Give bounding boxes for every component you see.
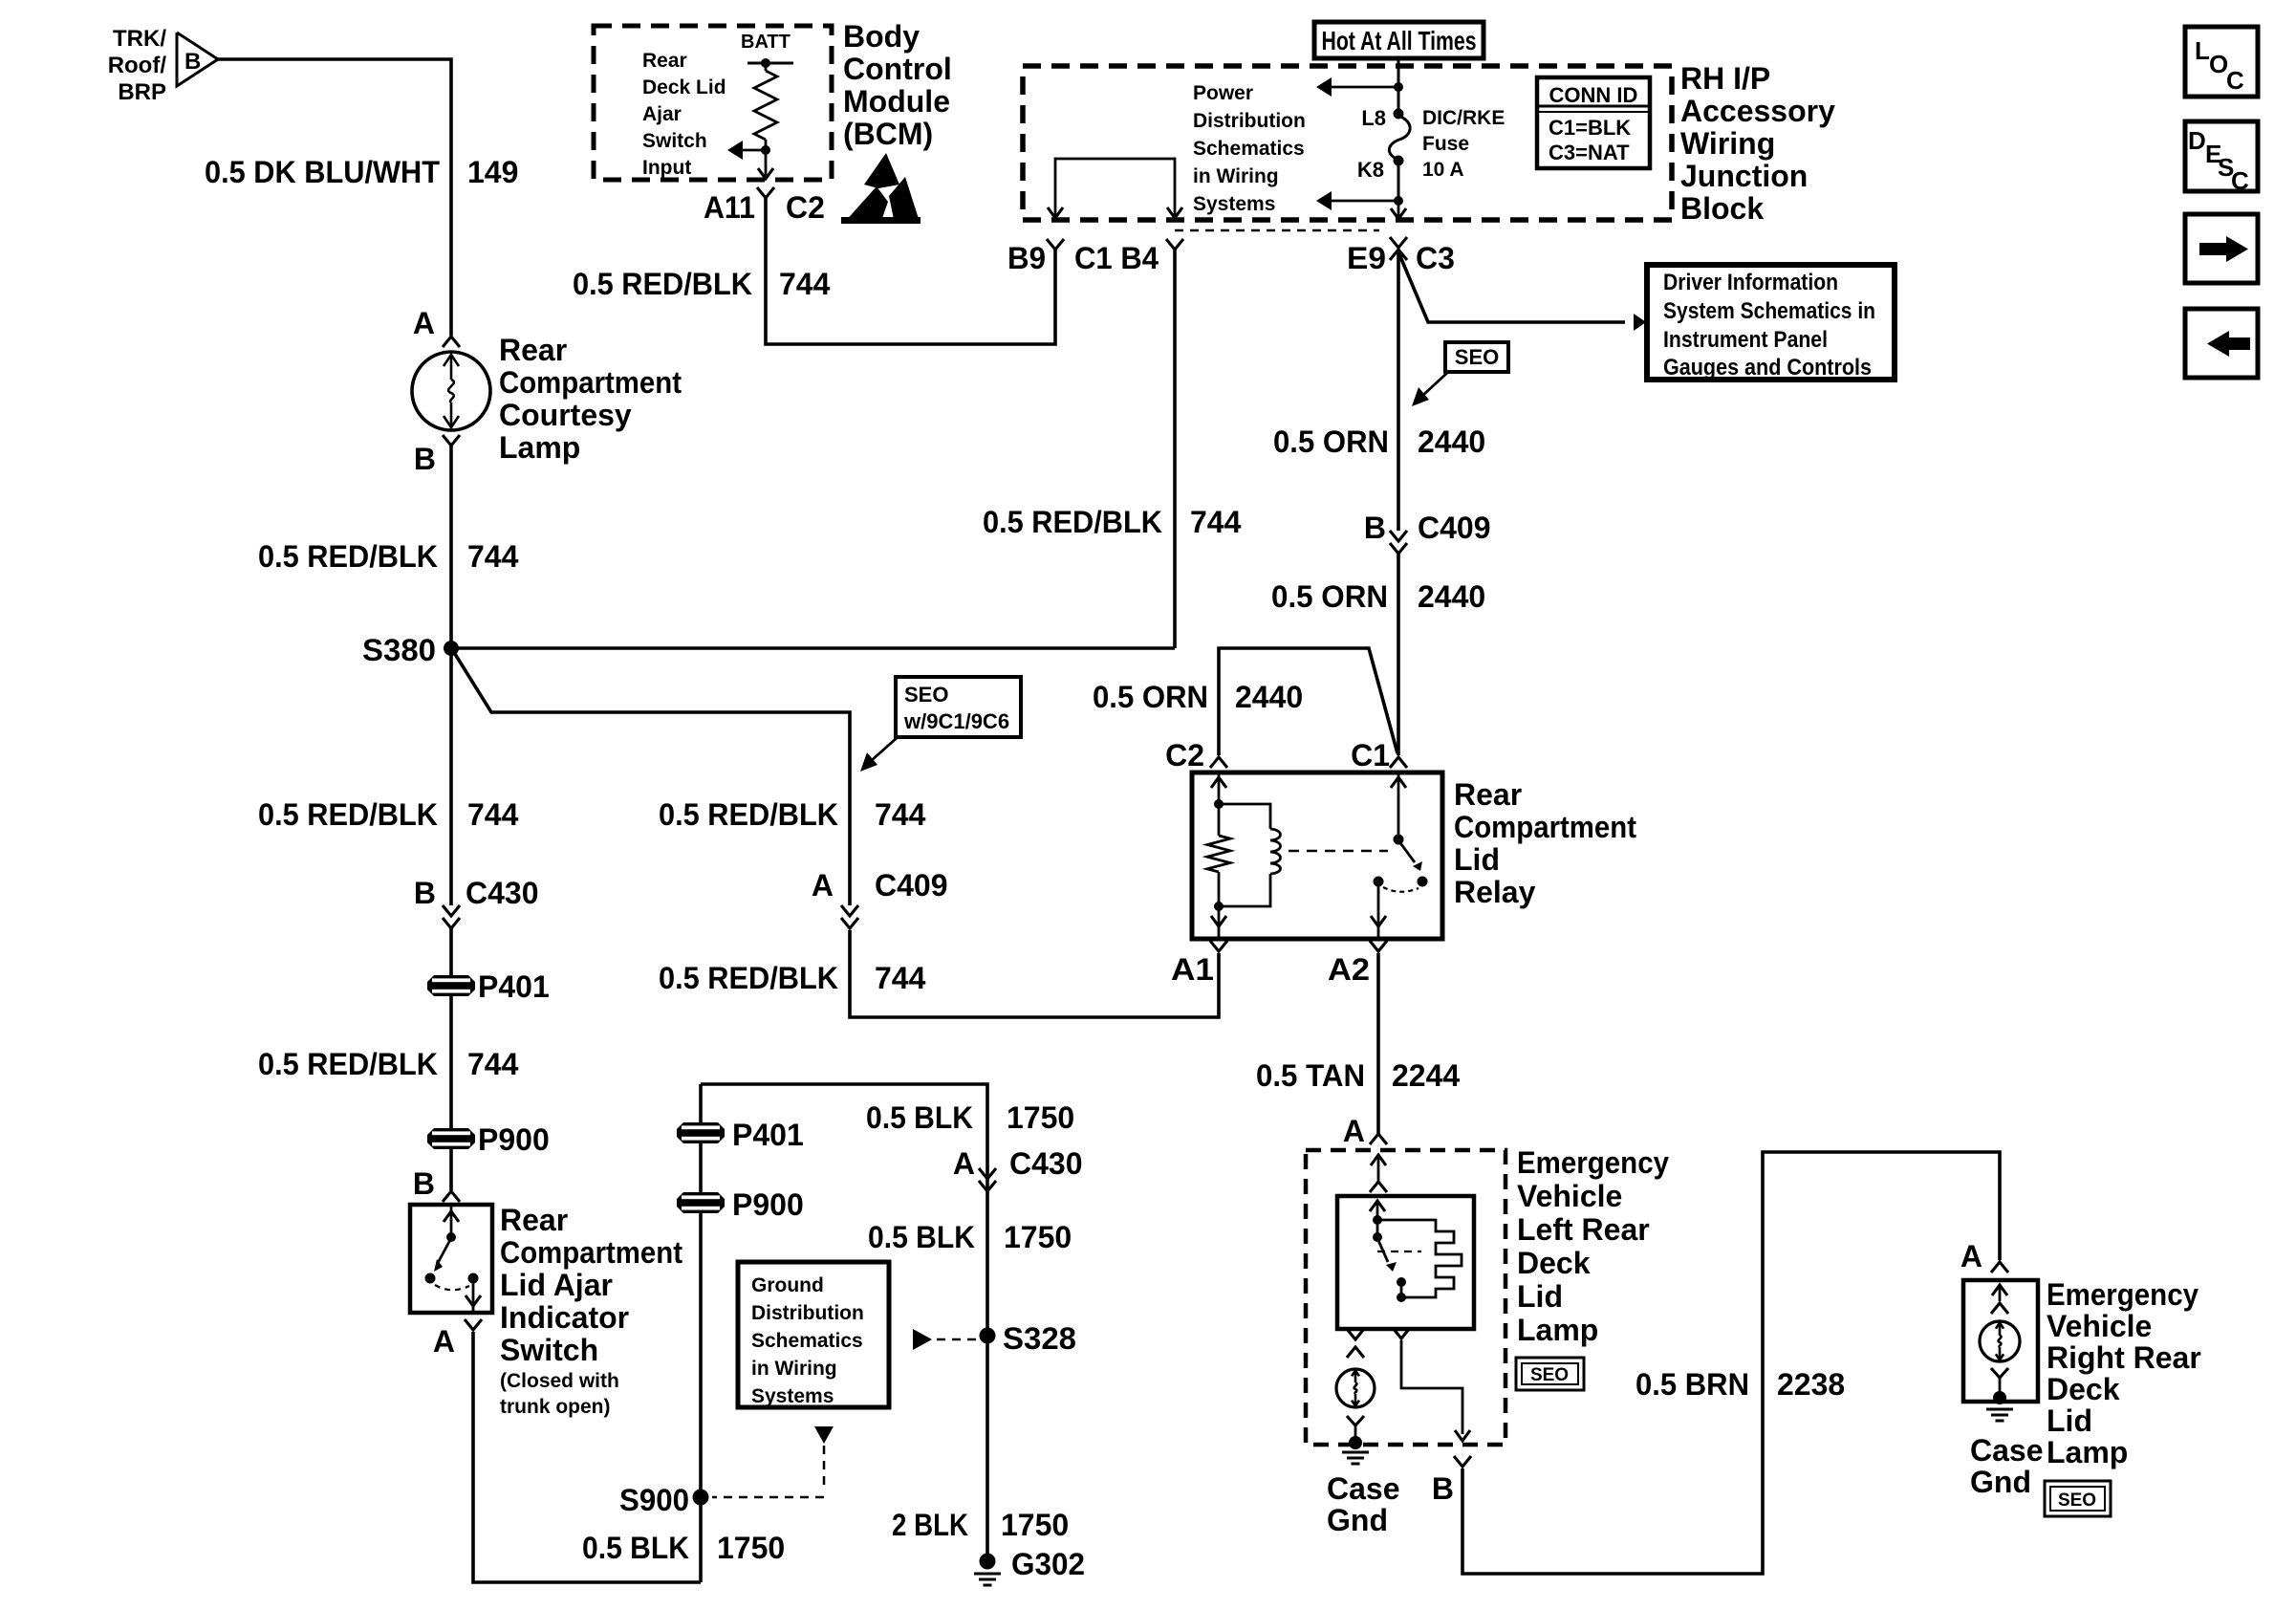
svg-text:RH I/P: RH I/P	[1680, 61, 1770, 96]
svg-text:A: A	[812, 868, 834, 903]
svg-text:A1: A1	[1171, 952, 1214, 987]
svg-text:Systems: Systems	[751, 1385, 834, 1407]
svg-text:744: 744	[1190, 505, 1242, 539]
svg-text:Driver Information: Driver Information	[1663, 270, 1838, 295]
svg-text:Vehicle: Vehicle	[1517, 1179, 1622, 1213]
svg-text:A: A	[1960, 1239, 1982, 1273]
svg-text:A2: A2	[1328, 952, 1370, 987]
svg-text:Distribution: Distribution	[751, 1302, 864, 1324]
svg-text:0.5 RED/BLK: 0.5 RED/BLK	[258, 1047, 438, 1081]
svg-text:Deck: Deck	[2047, 1372, 2120, 1406]
svg-text:B: B	[184, 49, 201, 75]
svg-text:C430: C430	[1009, 1146, 1083, 1181]
svg-text:Distribution: Distribution	[1193, 110, 1306, 132]
svg-text:Rear: Rear	[500, 1203, 568, 1237]
svg-text:B: B	[1432, 1471, 1454, 1506]
svg-text:Gnd: Gnd	[1327, 1503, 1388, 1537]
svg-text:C1 B4: C1 B4	[1074, 241, 1159, 275]
svg-text:E9: E9	[1347, 241, 1386, 275]
svg-text:Ajar: Ajar	[642, 103, 682, 125]
svg-text:Compartment: Compartment	[499, 365, 682, 400]
svg-text:C3: C3	[1416, 241, 1455, 275]
svg-text:Rear: Rear	[1454, 777, 1522, 812]
svg-text:1750: 1750	[717, 1531, 785, 1565]
svg-text:P900: P900	[732, 1187, 804, 1222]
svg-text:Lamp: Lamp	[499, 430, 580, 465]
svg-text:0.5 BLK: 0.5 BLK	[868, 1220, 975, 1254]
svg-text:1750: 1750	[1001, 1508, 1069, 1542]
svg-text:BATT: BATT	[741, 32, 791, 53]
svg-text:K8: K8	[1357, 158, 1384, 182]
svg-text:Rear: Rear	[499, 333, 567, 367]
svg-text:Hot At All Times: Hot At All Times	[1322, 26, 1477, 55]
svg-text:Ground: Ground	[751, 1274, 824, 1296]
svg-text:C2: C2	[1165, 738, 1204, 772]
svg-text:D: D	[2188, 126, 2206, 155]
svg-text:0.5 RED/BLK: 0.5 RED/BLK	[573, 267, 752, 301]
svg-text:Switch: Switch	[642, 130, 707, 152]
svg-text:2440: 2440	[1235, 680, 1303, 714]
svg-text:B: B	[413, 1166, 435, 1201]
svg-text:Compartment: Compartment	[1454, 810, 1636, 844]
svg-text:C409: C409	[875, 868, 948, 903]
svg-text:Control: Control	[843, 52, 952, 86]
svg-text:B: B	[414, 876, 436, 910]
svg-text:in Wiring: in Wiring	[751, 1358, 837, 1380]
svg-text:Lid: Lid	[2047, 1403, 2092, 1438]
svg-text:0.5 ORN: 0.5 ORN	[1273, 424, 1389, 459]
svg-text:2440: 2440	[1418, 424, 1485, 459]
svg-text:Lid: Lid	[1517, 1279, 1563, 1314]
svg-text:Emergency: Emergency	[2047, 1277, 2199, 1312]
svg-text:S328: S328	[1003, 1321, 1076, 1356]
svg-text:Instrument Panel: Instrument Panel	[1663, 327, 1828, 353]
svg-text:P900: P900	[478, 1122, 550, 1157]
svg-text:0.5 RED/BLK: 0.5 RED/BLK	[258, 797, 438, 832]
svg-text:0.5 RED/BLK: 0.5 RED/BLK	[983, 505, 1162, 539]
svg-text:Module: Module	[843, 84, 950, 119]
svg-text:P401: P401	[478, 969, 550, 1004]
svg-text:in Wiring: in Wiring	[1193, 165, 1279, 187]
svg-text:(BCM): (BCM)	[843, 117, 933, 151]
svg-text:Body: Body	[843, 19, 920, 54]
svg-text:Lid: Lid	[1454, 842, 1500, 877]
svg-text:C: C	[2226, 66, 2244, 95]
svg-text:Right Rear: Right Rear	[2047, 1340, 2201, 1375]
svg-text:Compartment: Compartment	[500, 1235, 682, 1270]
svg-text:B: B	[1364, 511, 1386, 545]
svg-text:Junction: Junction	[1680, 159, 1808, 193]
svg-text:Deck: Deck	[1517, 1246, 1591, 1280]
svg-text:Vehicle: Vehicle	[2047, 1309, 2152, 1343]
svg-text:0.5 RED/BLK: 0.5 RED/BLK	[659, 961, 838, 995]
svg-text:A: A	[433, 1324, 455, 1359]
svg-text:System Schematics in: System Schematics in	[1663, 298, 1875, 324]
svg-text:Block: Block	[1680, 191, 1764, 226]
svg-text:P401: P401	[732, 1118, 804, 1152]
svg-text:BRP: BRP	[118, 79, 166, 105]
svg-text:w/9C1/9C6: w/9C1/9C6	[903, 709, 1009, 733]
svg-text:S380: S380	[362, 633, 436, 667]
svg-text:A: A	[1343, 1114, 1365, 1148]
svg-text:744: 744	[875, 961, 926, 995]
svg-text:0.5 DK BLU/WHT: 0.5 DK BLU/WHT	[205, 155, 440, 189]
svg-text:A11: A11	[704, 190, 755, 225]
svg-text:G302: G302	[1011, 1547, 1085, 1581]
svg-text:744: 744	[467, 1047, 519, 1081]
svg-text:C1=BLK: C1=BLK	[1549, 116, 1631, 140]
svg-text:CONN ID: CONN ID	[1549, 83, 1638, 107]
svg-text:10 A: 10 A	[1422, 159, 1464, 181]
svg-text:Fuse: Fuse	[1422, 133, 1469, 155]
svg-text:0.5 RED/BLK: 0.5 RED/BLK	[258, 539, 438, 574]
svg-text:Schematics: Schematics	[1193, 138, 1305, 160]
svg-text:C1: C1	[1351, 738, 1390, 772]
svg-text:Schematics: Schematics	[751, 1330, 863, 1352]
svg-text:1750: 1750	[1007, 1100, 1074, 1135]
svg-text:0.5 ORN: 0.5 ORN	[1271, 579, 1388, 614]
svg-text:Wiring: Wiring	[1680, 126, 1775, 161]
svg-text:SEO: SEO	[904, 683, 948, 707]
svg-text:744: 744	[467, 539, 519, 574]
svg-text:C3=NAT: C3=NAT	[1549, 141, 1630, 164]
svg-text:Courtesy: Courtesy	[499, 398, 632, 432]
svg-text:2 BLK: 2 BLK	[892, 1508, 968, 1542]
svg-text:trunk open): trunk open)	[500, 1396, 611, 1418]
svg-text:Power: Power	[1193, 82, 1253, 104]
svg-text:744: 744	[779, 267, 831, 301]
svg-text:DIC/RKE: DIC/RKE	[1422, 107, 1505, 129]
svg-text:744: 744	[467, 797, 519, 832]
svg-text:A: A	[953, 1146, 975, 1181]
svg-text:Lamp: Lamp	[1517, 1313, 1598, 1347]
svg-text:744: 744	[875, 797, 926, 832]
svg-text:0.5 BLK: 0.5 BLK	[866, 1100, 973, 1135]
svg-text:0.5 TAN: 0.5 TAN	[1256, 1058, 1365, 1093]
svg-text:Gnd: Gnd	[1970, 1465, 2031, 1499]
svg-text:B9: B9	[1007, 241, 1046, 275]
svg-text:C409: C409	[1418, 511, 1491, 545]
svg-text:Relay: Relay	[1454, 875, 1536, 909]
svg-text:(Closed with: (Closed with	[500, 1370, 619, 1392]
svg-text:Lamp: Lamp	[2047, 1435, 2128, 1469]
svg-text:0.5 BRN: 0.5 BRN	[1635, 1367, 1749, 1402]
svg-text:Case: Case	[1327, 1471, 1400, 1506]
svg-text:Deck Lid: Deck Lid	[642, 76, 726, 98]
svg-text:2440: 2440	[1418, 579, 1485, 614]
svg-text:TRK/: TRK/	[113, 26, 166, 52]
svg-text:Indicator: Indicator	[500, 1300, 629, 1335]
svg-text:Gauges and Controls: Gauges and Controls	[1663, 355, 1872, 381]
svg-text:S900: S900	[619, 1483, 689, 1517]
svg-text:Left Rear: Left Rear	[1517, 1212, 1650, 1247]
svg-text:L8: L8	[1361, 106, 1386, 130]
svg-text:Roof/: Roof/	[108, 53, 167, 78]
svg-text:L: L	[2195, 36, 2210, 65]
svg-text:2244: 2244	[1392, 1058, 1460, 1093]
svg-text:C430: C430	[466, 876, 539, 910]
svg-text:Systems: Systems	[1193, 193, 1275, 215]
svg-text:0.5 RED/BLK: 0.5 RED/BLK	[659, 797, 838, 832]
svg-text:B: B	[414, 442, 436, 476]
svg-text:C2: C2	[786, 190, 825, 225]
svg-text:Accessory: Accessory	[1680, 94, 1835, 128]
svg-text:1750: 1750	[1004, 1220, 1072, 1254]
svg-text:Switch: Switch	[500, 1333, 598, 1367]
svg-text:C: C	[2231, 166, 2249, 195]
svg-text:SEO: SEO	[2058, 1490, 2096, 1511]
svg-text:2238: 2238	[1777, 1367, 1845, 1402]
svg-text:Rear: Rear	[642, 50, 687, 72]
svg-text:149: 149	[467, 155, 518, 189]
svg-text:Input: Input	[642, 157, 691, 179]
svg-text:SEO: SEO	[1455, 345, 1499, 369]
svg-text:0.5 BLK: 0.5 BLK	[582, 1531, 689, 1565]
svg-text:0.5 ORN: 0.5 ORN	[1093, 680, 1208, 714]
svg-text:Case: Case	[1970, 1433, 2044, 1468]
svg-text:SEO: SEO	[1530, 1365, 1569, 1385]
svg-text:A: A	[413, 306, 435, 340]
svg-text:Emergency: Emergency	[1517, 1145, 1669, 1180]
svg-text:Lid Ajar: Lid Ajar	[500, 1268, 613, 1302]
